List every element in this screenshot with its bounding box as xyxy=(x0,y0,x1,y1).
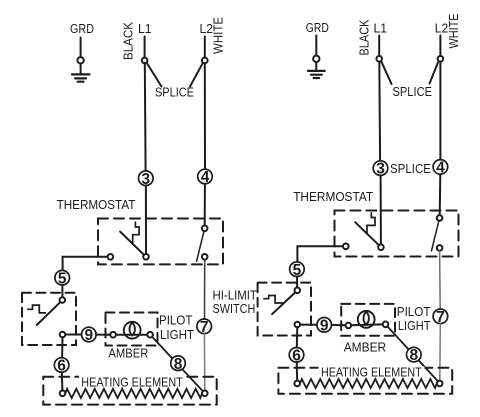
thermostat right contact node (right) xyxy=(378,244,384,250)
label HEATING ELEMENT (left) xyxy=(79,375,185,390)
svg-text:AMBER: AMBER xyxy=(344,339,387,354)
wire junction to terminal 9 (right) xyxy=(300,324,317,326)
terminal 8 (left) xyxy=(171,356,186,371)
wire L1 to terminal 3 (right) xyxy=(378,62,381,161)
wire terminal 7 to heating element (left, light) xyxy=(203,334,205,391)
wire terminal 5 to hi-limit switch (left) xyxy=(61,285,63,297)
svg-text:BLACK: BLACK xyxy=(357,19,372,55)
wire L2 drop (left) xyxy=(204,37,206,58)
svg-text:PILOT: PILOT xyxy=(397,304,431,319)
wire splice leader L1 (left) xyxy=(147,63,162,87)
lamp pilot light (right) xyxy=(358,311,375,328)
wire terminal 4 to thermostat switch (right) xyxy=(439,174,442,215)
hi-limit switch top node (left) xyxy=(60,297,66,303)
svg-text:BLACK: BLACK xyxy=(121,22,136,60)
svg-text:SWITCH: SWITCH xyxy=(213,301,256,316)
thermostat line-break switch upper node (right) xyxy=(437,215,443,221)
thermostat line-break switch lower node (right) xyxy=(437,245,443,251)
svg-text:PILOT: PILOT xyxy=(159,313,192,328)
wire junction to terminal 9 (left) xyxy=(65,334,81,336)
splice node L1 (right) xyxy=(376,56,382,62)
ground GRD terminal circle (right) xyxy=(313,56,319,62)
terminal 8 (right) xyxy=(407,347,422,362)
svg-text:L1: L1 xyxy=(138,21,152,36)
pilot light left node (right) xyxy=(346,323,352,329)
pilot light right node (right) xyxy=(383,322,389,328)
terminal 7 (left) xyxy=(197,319,212,334)
ground GRD lead wire (left) xyxy=(80,38,82,58)
hi-limit switch dashed box (right) xyxy=(258,283,311,336)
thermostat enclosure dashed box (left) xyxy=(98,219,223,265)
svg-text:GRD: GRD xyxy=(306,20,329,35)
thermostat bimetal element (left) xyxy=(133,222,139,243)
svg-text:8: 8 xyxy=(174,356,183,373)
heating element right node (left) xyxy=(202,391,208,397)
thermostat switch arm (left) xyxy=(120,232,144,255)
hi-limit bimetal element (right) xyxy=(264,296,283,304)
thermostat right contact node (left) xyxy=(143,254,149,260)
wire splice leader L2 (right) xyxy=(430,61,439,84)
ground GRD lead wire (right) xyxy=(315,36,317,56)
terminal 5 (left) xyxy=(55,270,70,285)
splice node L2 (right) xyxy=(438,56,444,62)
wire thermostat to node 5 horizontal (right) xyxy=(297,246,343,262)
wire terminal 3 to thermostat (left) xyxy=(145,186,147,255)
terminal 5 (right) xyxy=(290,262,305,277)
svg-text:THERMOSTAT: THERMOSTAT xyxy=(57,197,136,212)
hi-limit bimetal element (left) xyxy=(28,305,46,313)
wire L2 drop (right) xyxy=(439,36,441,57)
wire through lamp (left) xyxy=(116,334,147,336)
wire through lamp (right) xyxy=(351,323,383,326)
hi-limit bottom junction node (left) xyxy=(60,332,66,338)
lamp pilot light (left) xyxy=(124,322,141,339)
terminal 9 (left) xyxy=(82,327,97,342)
wire L1 to terminal 3 (left) xyxy=(144,63,147,171)
wire terminal 3 to thermostat (right) xyxy=(380,175,382,244)
svg-text:SPLICE: SPLICE xyxy=(390,161,431,176)
svg-text:HEATING ELEMENT: HEATING ELEMENT xyxy=(321,365,422,380)
hi-limit switch arm (left) xyxy=(37,303,60,325)
resistor heating element zigzag (right) xyxy=(300,379,437,388)
thermostat switch arm (right) xyxy=(355,222,379,245)
thermostat left contact node (left) xyxy=(108,254,114,260)
svg-text:LIGHT: LIGHT xyxy=(398,318,431,333)
svg-text:SPLICE: SPLICE xyxy=(393,84,433,99)
wire terminal 6 to heating element (left) xyxy=(61,372,64,390)
terminal 7 (right) xyxy=(433,309,448,324)
svg-text:L1: L1 xyxy=(374,21,388,36)
hi-limit switch top node (right) xyxy=(295,288,301,294)
pilot light left node (left) xyxy=(110,332,116,338)
splice node L2 (left) xyxy=(202,58,208,64)
label HEATING ELEMENT (right) xyxy=(319,365,425,380)
svg-text:GRD: GRD xyxy=(70,21,94,36)
wire thermostat to node 5 horizontal (left) xyxy=(63,257,108,271)
svg-text:WHITE: WHITE xyxy=(211,17,226,54)
wire terminal 4 to thermostat switch (left) xyxy=(204,184,206,226)
wire terminal 7 to heating element (right, light) xyxy=(439,324,442,381)
terminal 3 (left) xyxy=(139,171,154,186)
thermostat enclosure dashed box (right) xyxy=(335,211,459,257)
wire ground stem (left) xyxy=(80,64,82,74)
svg-text:LIGHT: LIGHT xyxy=(160,327,194,342)
splice node L1 (left) xyxy=(142,58,148,64)
hi-limit switch arm (right) xyxy=(272,293,295,314)
wire L1 drop (left) xyxy=(144,37,146,58)
wire terminal 6 to heating element (right) xyxy=(296,362,299,381)
wire junction down to terminal 6 (right) xyxy=(296,327,299,347)
terminal 4 (right) xyxy=(433,160,448,175)
wire splice leader L2 (left) xyxy=(190,63,203,87)
terminal 9 (right) xyxy=(317,318,332,333)
pilot light dashed box (left) xyxy=(106,313,158,346)
thermostat line-break switch arm (left) xyxy=(197,231,204,261)
wire pilot light diagonal to heating element (right) xyxy=(388,327,440,383)
terminal 6 (left) xyxy=(54,358,69,373)
wire splice leader L1 (right) xyxy=(381,61,391,84)
wire pilot light diagonal to heating element (left) xyxy=(152,337,204,393)
thermostat bimetal element (right) xyxy=(367,213,375,234)
svg-text:AMBER: AMBER xyxy=(108,345,148,360)
wire terminal 9 to pilot light (right) xyxy=(331,324,345,326)
pilot light dashed box (right) xyxy=(341,304,395,336)
heating element left node (right) xyxy=(294,381,300,387)
ground symbol (right) xyxy=(308,71,325,78)
terminal 4 (left) xyxy=(198,169,213,184)
svg-text:HEATING ELEMENT: HEATING ELEMENT xyxy=(81,375,183,390)
terminal 3 (right) xyxy=(373,161,388,176)
thermostat left contact node (right) xyxy=(343,244,349,250)
wire L1 drop (right) xyxy=(378,36,380,57)
hi-limit bottom junction node (right) xyxy=(295,322,301,328)
thermostat line-break switch arm (right) xyxy=(432,221,439,251)
svg-text:WHITE: WHITE xyxy=(446,13,461,48)
hi-limit switch dashed box (left) xyxy=(22,293,76,345)
heating element dashed box (left) xyxy=(43,377,216,405)
ground GRD terminal circle (left) xyxy=(77,57,83,63)
wire junction down to terminal 6 (left) xyxy=(61,337,63,357)
wire terminal 9 to pilot light (left) xyxy=(96,334,110,336)
wire terminal 5 to hi-limit switch (right) xyxy=(296,277,298,288)
thermostat line-break switch lower node (left) xyxy=(202,254,208,260)
svg-text:8: 8 xyxy=(409,347,418,364)
heating element dashed box (right) xyxy=(278,368,452,394)
pilot light right node (left) xyxy=(147,332,153,338)
svg-text:9: 9 xyxy=(84,327,93,344)
wire L2 to terminal 4 (right) xyxy=(439,62,441,160)
wire thermostat switch to terminal 7 (left) xyxy=(204,260,206,319)
heating element left node (left) xyxy=(60,391,66,397)
thermostat line-break switch upper node (left) xyxy=(202,226,208,232)
svg-text:THERMOSTAT: THERMOSTAT xyxy=(293,189,373,204)
resistor heating element zigzag (left) xyxy=(65,389,202,398)
ground symbol (left) xyxy=(72,74,90,81)
wire L2 to terminal 4 (left) xyxy=(204,63,206,169)
wire thermostat switch to terminal 7 (right) xyxy=(439,251,442,309)
heating element right node (right) xyxy=(437,381,443,387)
wire ground stem (right) xyxy=(315,62,317,70)
svg-text:9: 9 xyxy=(320,317,329,334)
terminal 6 (right) xyxy=(289,348,304,363)
svg-text:SPLICE: SPLICE xyxy=(155,85,194,100)
